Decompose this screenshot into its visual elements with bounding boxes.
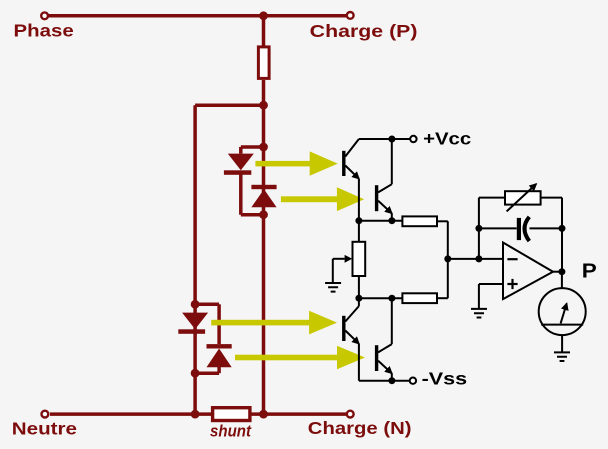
svg-text:-Vss: -Vss: [422, 369, 468, 389]
svg-text:P: P: [582, 260, 597, 282]
svg-text:Charge (P): Charge (P): [310, 21, 418, 41]
svg-text:shunt: shunt: [210, 423, 252, 441]
svg-text:Charge (N): Charge (N): [308, 418, 412, 438]
svg-text:+Vcc: +Vcc: [423, 129, 471, 149]
svg-text:Phase: Phase: [14, 20, 75, 40]
svg-text:Neutre: Neutre: [12, 419, 78, 439]
